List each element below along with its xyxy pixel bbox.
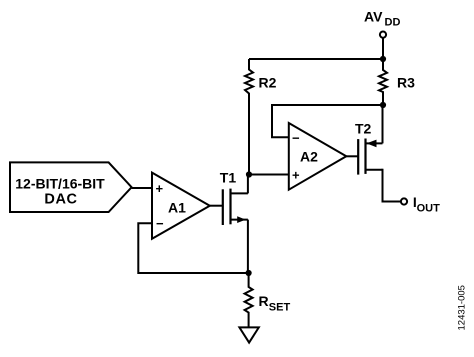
wire R2 bottom to T1 drain node — [248, 99, 250, 175]
svg-text:12431-005: 12431-005 — [457, 285, 468, 330]
svg-text:R3: R3 — [397, 74, 415, 90]
wire A2 output to T2 gate — [346, 155, 358, 157]
svg-text:T2: T2 — [355, 121, 372, 137]
svg-text:−: − — [156, 216, 164, 231]
svg-text:R: R — [259, 293, 269, 309]
svg-text:SET: SET — [269, 301, 291, 313]
transistor T2 — [358, 139, 382, 175]
resistor R3 — [379, 59, 387, 105]
wire A2 feedback top horizontal — [272, 104, 383, 106]
label IOUT — [413, 194, 440, 215]
wire A2 feedback vertical — [271, 104, 273, 137]
wire top rail horizontal — [249, 58, 383, 60]
svg-text:DD: DD — [385, 17, 401, 29]
power label AVDD — [364, 8, 400, 28]
ground — [239, 327, 258, 342]
label RSET — [259, 293, 291, 314]
svg-text:A2: A2 — [300, 148, 318, 164]
svg-text:+: + — [292, 168, 300, 183]
wire A2 feedback to inverting input — [271, 136, 289, 138]
wire T2 source down — [383, 169, 401, 202]
terminal circle IOUT — [401, 198, 407, 204]
terminal circle AVDD — [380, 31, 386, 37]
svg-text:DAC: DAC — [44, 192, 77, 208]
svg-text:−: − — [292, 130, 300, 145]
resistor RSET — [245, 273, 253, 327]
svg-text:OUT: OUT — [417, 203, 441, 215]
svg-text:12-BIT/16-BIT: 12-BIT/16-BIT — [15, 175, 105, 191]
resistor R2 — [245, 59, 253, 100]
node top rail junction — [380, 56, 386, 62]
op-amp A1 — [152, 173, 210, 239]
node RSET junction — [246, 270, 252, 276]
svg-text:T1: T1 — [220, 169, 237, 185]
node T1 drain junction — [246, 171, 252, 177]
wire A1 output to T1 gate — [210, 205, 223, 207]
svg-text:+: + — [156, 181, 164, 196]
wire T1 drain node to A2 non-inverting input — [249, 174, 289, 176]
DAC block 12-BIT/16-BIT DAC — [10, 162, 132, 212]
op-amp A2 — [289, 123, 347, 190]
wire AVDD circle to top rail — [382, 38, 384, 59]
svg-text:A1: A1 — [168, 199, 186, 215]
wire R3 junction down to T2 drain — [382, 105, 384, 143]
transistor T1 — [223, 175, 248, 226]
wire A1 inverting input feedback — [138, 223, 249, 273]
node R3 bottom junction — [380, 102, 386, 108]
svg-text:R2: R2 — [259, 74, 277, 90]
wire T1 source down to RSET node — [247, 220, 249, 273]
svg-text:AV: AV — [364, 8, 383, 24]
wire DAC to A1 non-inverting input — [132, 187, 152, 189]
